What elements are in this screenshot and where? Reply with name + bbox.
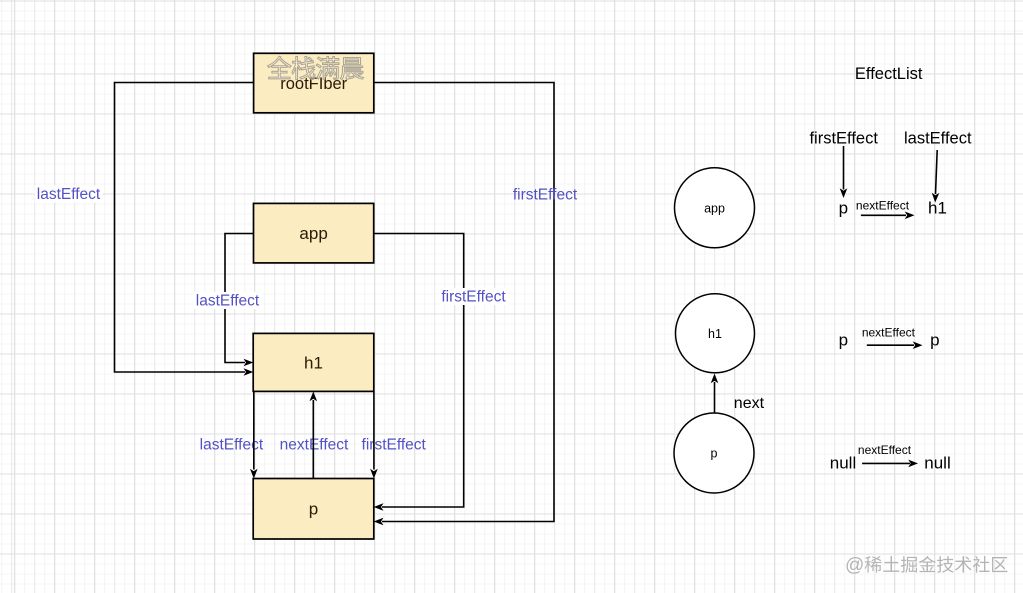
wire nextEffect row2 <box>867 344 914 346</box>
wire lastEffect to h1 <box>936 150 938 194</box>
svg-text:h1: h1 <box>928 199 947 218</box>
svg-text:nextEffect: nextEffect <box>280 437 349 454</box>
wire lastEffect rootFiber to h1 <box>115 83 254 373</box>
circle h1 <box>676 294 755 373</box>
svg-text:firstEffect: firstEffect <box>441 289 506 306</box>
svg-text:lastEffect: lastEffect <box>37 186 101 203</box>
wire lastEffect h1 to p <box>253 392 255 470</box>
svg-text:EffectList: EffectList <box>855 65 923 83</box>
svg-text:lastEffect: lastEffect <box>196 293 260 310</box>
box p <box>253 479 374 540</box>
label lastEffect <box>35 186 103 203</box>
svg-text:@: @ <box>845 555 864 576</box>
label firstEffect <box>439 288 508 305</box>
svg-text:nextEffect: nextEffect <box>862 326 916 340</box>
wire nextEffect row3 <box>862 462 910 464</box>
svg-text:nextEffect: nextEffect <box>858 443 912 457</box>
svg-text:p: p <box>309 500 318 519</box>
svg-text:h1: h1 <box>708 327 722 341</box>
wire nextEffect row1 <box>861 214 906 216</box>
wire lastEffect app to h1 <box>225 234 254 363</box>
wire next p-circle to h1-circle <box>714 382 716 413</box>
label lastEffect <box>194 292 262 309</box>
svg-text:p: p <box>839 331 848 350</box>
wire firstEffect rootFiber to p <box>374 83 554 522</box>
svg-text:firstEffect: firstEffect <box>513 187 578 204</box>
watermark quanzhanmanchen <box>267 56 363 79</box>
wire firstEffect h1 to p <box>373 392 375 470</box>
box rootFiber <box>254 53 374 113</box>
svg-text:lastEffect: lastEffect <box>904 130 972 148</box>
wire firstEffect app to p <box>374 234 464 508</box>
box app <box>254 203 374 263</box>
svg-text:nextEffect: nextEffect <box>856 198 910 212</box>
wire firstEffect to p <box>843 146 845 190</box>
svg-text:p: p <box>711 447 718 461</box>
svg-text:next: next <box>734 395 765 412</box>
svg-text:p: p <box>839 199 848 218</box>
circle app <box>675 168 755 248</box>
svg-text:app: app <box>299 224 327 243</box>
box h1 <box>253 333 374 391</box>
circle p <box>674 413 754 493</box>
svg-text:firstEffect: firstEffect <box>362 437 427 454</box>
svg-text:app: app <box>704 201 725 215</box>
svg-text:null: null <box>924 454 950 473</box>
wire nextEffect p to h1 <box>312 400 314 478</box>
svg-text:p: p <box>930 331 939 350</box>
svg-text:null: null <box>830 454 856 473</box>
svg-text:h1: h1 <box>304 353 323 372</box>
svg-text:firstEffect: firstEffect <box>809 130 878 148</box>
